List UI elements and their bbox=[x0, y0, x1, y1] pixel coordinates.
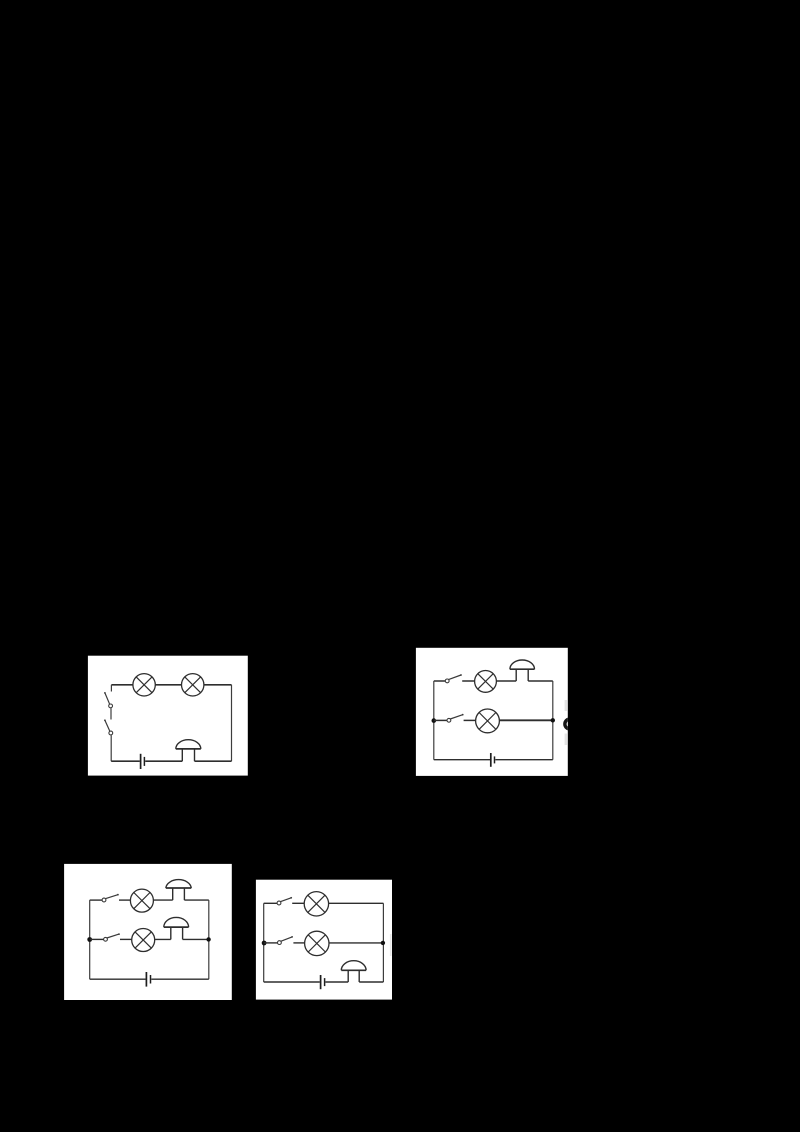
switch A-S1 bbox=[104, 692, 113, 708]
wire bbox=[155, 938, 171, 940]
switch D-S2 bbox=[278, 936, 294, 944]
bell C2 bbox=[164, 917, 189, 939]
wire bbox=[434, 759, 490, 761]
wire bbox=[434, 680, 446, 682]
wire bbox=[292, 902, 304, 904]
bell D bbox=[341, 961, 366, 982]
wire bbox=[195, 760, 232, 762]
wire bbox=[464, 719, 476, 721]
wire bbox=[528, 680, 553, 682]
battery C bbox=[146, 972, 150, 987]
wire bbox=[151, 978, 209, 980]
wire bbox=[145, 760, 182, 762]
wire bbox=[183, 938, 209, 940]
wire bbox=[329, 902, 384, 904]
wire bbox=[433, 681, 435, 760]
lamp D-L1 bbox=[304, 892, 328, 916]
battery D bbox=[321, 975, 325, 989]
wire bbox=[111, 760, 140, 762]
wire bbox=[90, 899, 103, 901]
artifact smudge above label bbox=[565, 700, 568, 711]
artifact smudge below label bbox=[565, 734, 568, 746]
node C-left bbox=[87, 937, 92, 942]
switch C-S2 bbox=[104, 933, 120, 941]
wire bbox=[382, 903, 384, 982]
node D-right bbox=[381, 941, 385, 945]
wire bbox=[119, 899, 130, 901]
lamp C-L1 bbox=[130, 889, 153, 912]
artifact streak right edge D bbox=[390, 934, 392, 956]
lamp D-L2 bbox=[305, 931, 329, 955]
wire bbox=[499, 719, 552, 721]
battery B bbox=[491, 753, 495, 767]
label C (clipped by scan edge) bbox=[565, 719, 574, 729]
node B-right bbox=[551, 718, 555, 722]
wire bbox=[434, 719, 447, 721]
wire bbox=[110, 685, 112, 692]
circuit panel D background bbox=[256, 880, 392, 1000]
wire bbox=[204, 684, 232, 686]
bell B1 bbox=[510, 660, 535, 681]
wire bbox=[90, 978, 146, 980]
wire bbox=[264, 902, 278, 904]
node D-left bbox=[262, 941, 267, 946]
wire bbox=[90, 938, 104, 940]
wire bbox=[184, 899, 208, 901]
wire bbox=[231, 685, 233, 761]
wire bbox=[325, 981, 348, 983]
circuit panel B background bbox=[416, 648, 568, 776]
lamp C-L2 bbox=[132, 929, 155, 952]
lamp B-L2 bbox=[476, 709, 500, 733]
switch D-S1 bbox=[277, 897, 292, 905]
wire bbox=[495, 759, 553, 761]
wire bbox=[359, 981, 383, 983]
wire bbox=[208, 900, 210, 979]
bell C1 bbox=[166, 880, 192, 900]
node B-left bbox=[432, 718, 437, 723]
wire bbox=[552, 681, 554, 760]
switch C-S1 bbox=[102, 894, 119, 902]
bell A bbox=[176, 740, 201, 761]
switch A-S2 bbox=[104, 719, 113, 735]
wire bbox=[263, 903, 265, 982]
lamp A-L2 bbox=[182, 674, 204, 696]
wire bbox=[110, 735, 112, 761]
wire bbox=[293, 942, 304, 944]
circuit panel C background bbox=[64, 864, 232, 1000]
wire bbox=[89, 900, 91, 979]
wire bbox=[462, 680, 474, 682]
circuit panel A background bbox=[88, 656, 248, 776]
lamp A-L1 bbox=[133, 674, 155, 696]
wire bbox=[496, 680, 516, 682]
wire bbox=[111, 684, 132, 686]
wire bbox=[110, 708, 112, 719]
lamp B-L1 bbox=[475, 671, 497, 693]
switch B-S1 bbox=[445, 674, 462, 683]
wire bbox=[329, 942, 383, 944]
wire bbox=[155, 684, 181, 686]
wire bbox=[264, 981, 320, 983]
battery A bbox=[141, 754, 145, 769]
node C-right bbox=[206, 937, 210, 941]
wire bbox=[120, 938, 132, 940]
wire bbox=[264, 942, 278, 944]
switch B-S2 bbox=[447, 714, 464, 722]
wire bbox=[153, 899, 172, 901]
